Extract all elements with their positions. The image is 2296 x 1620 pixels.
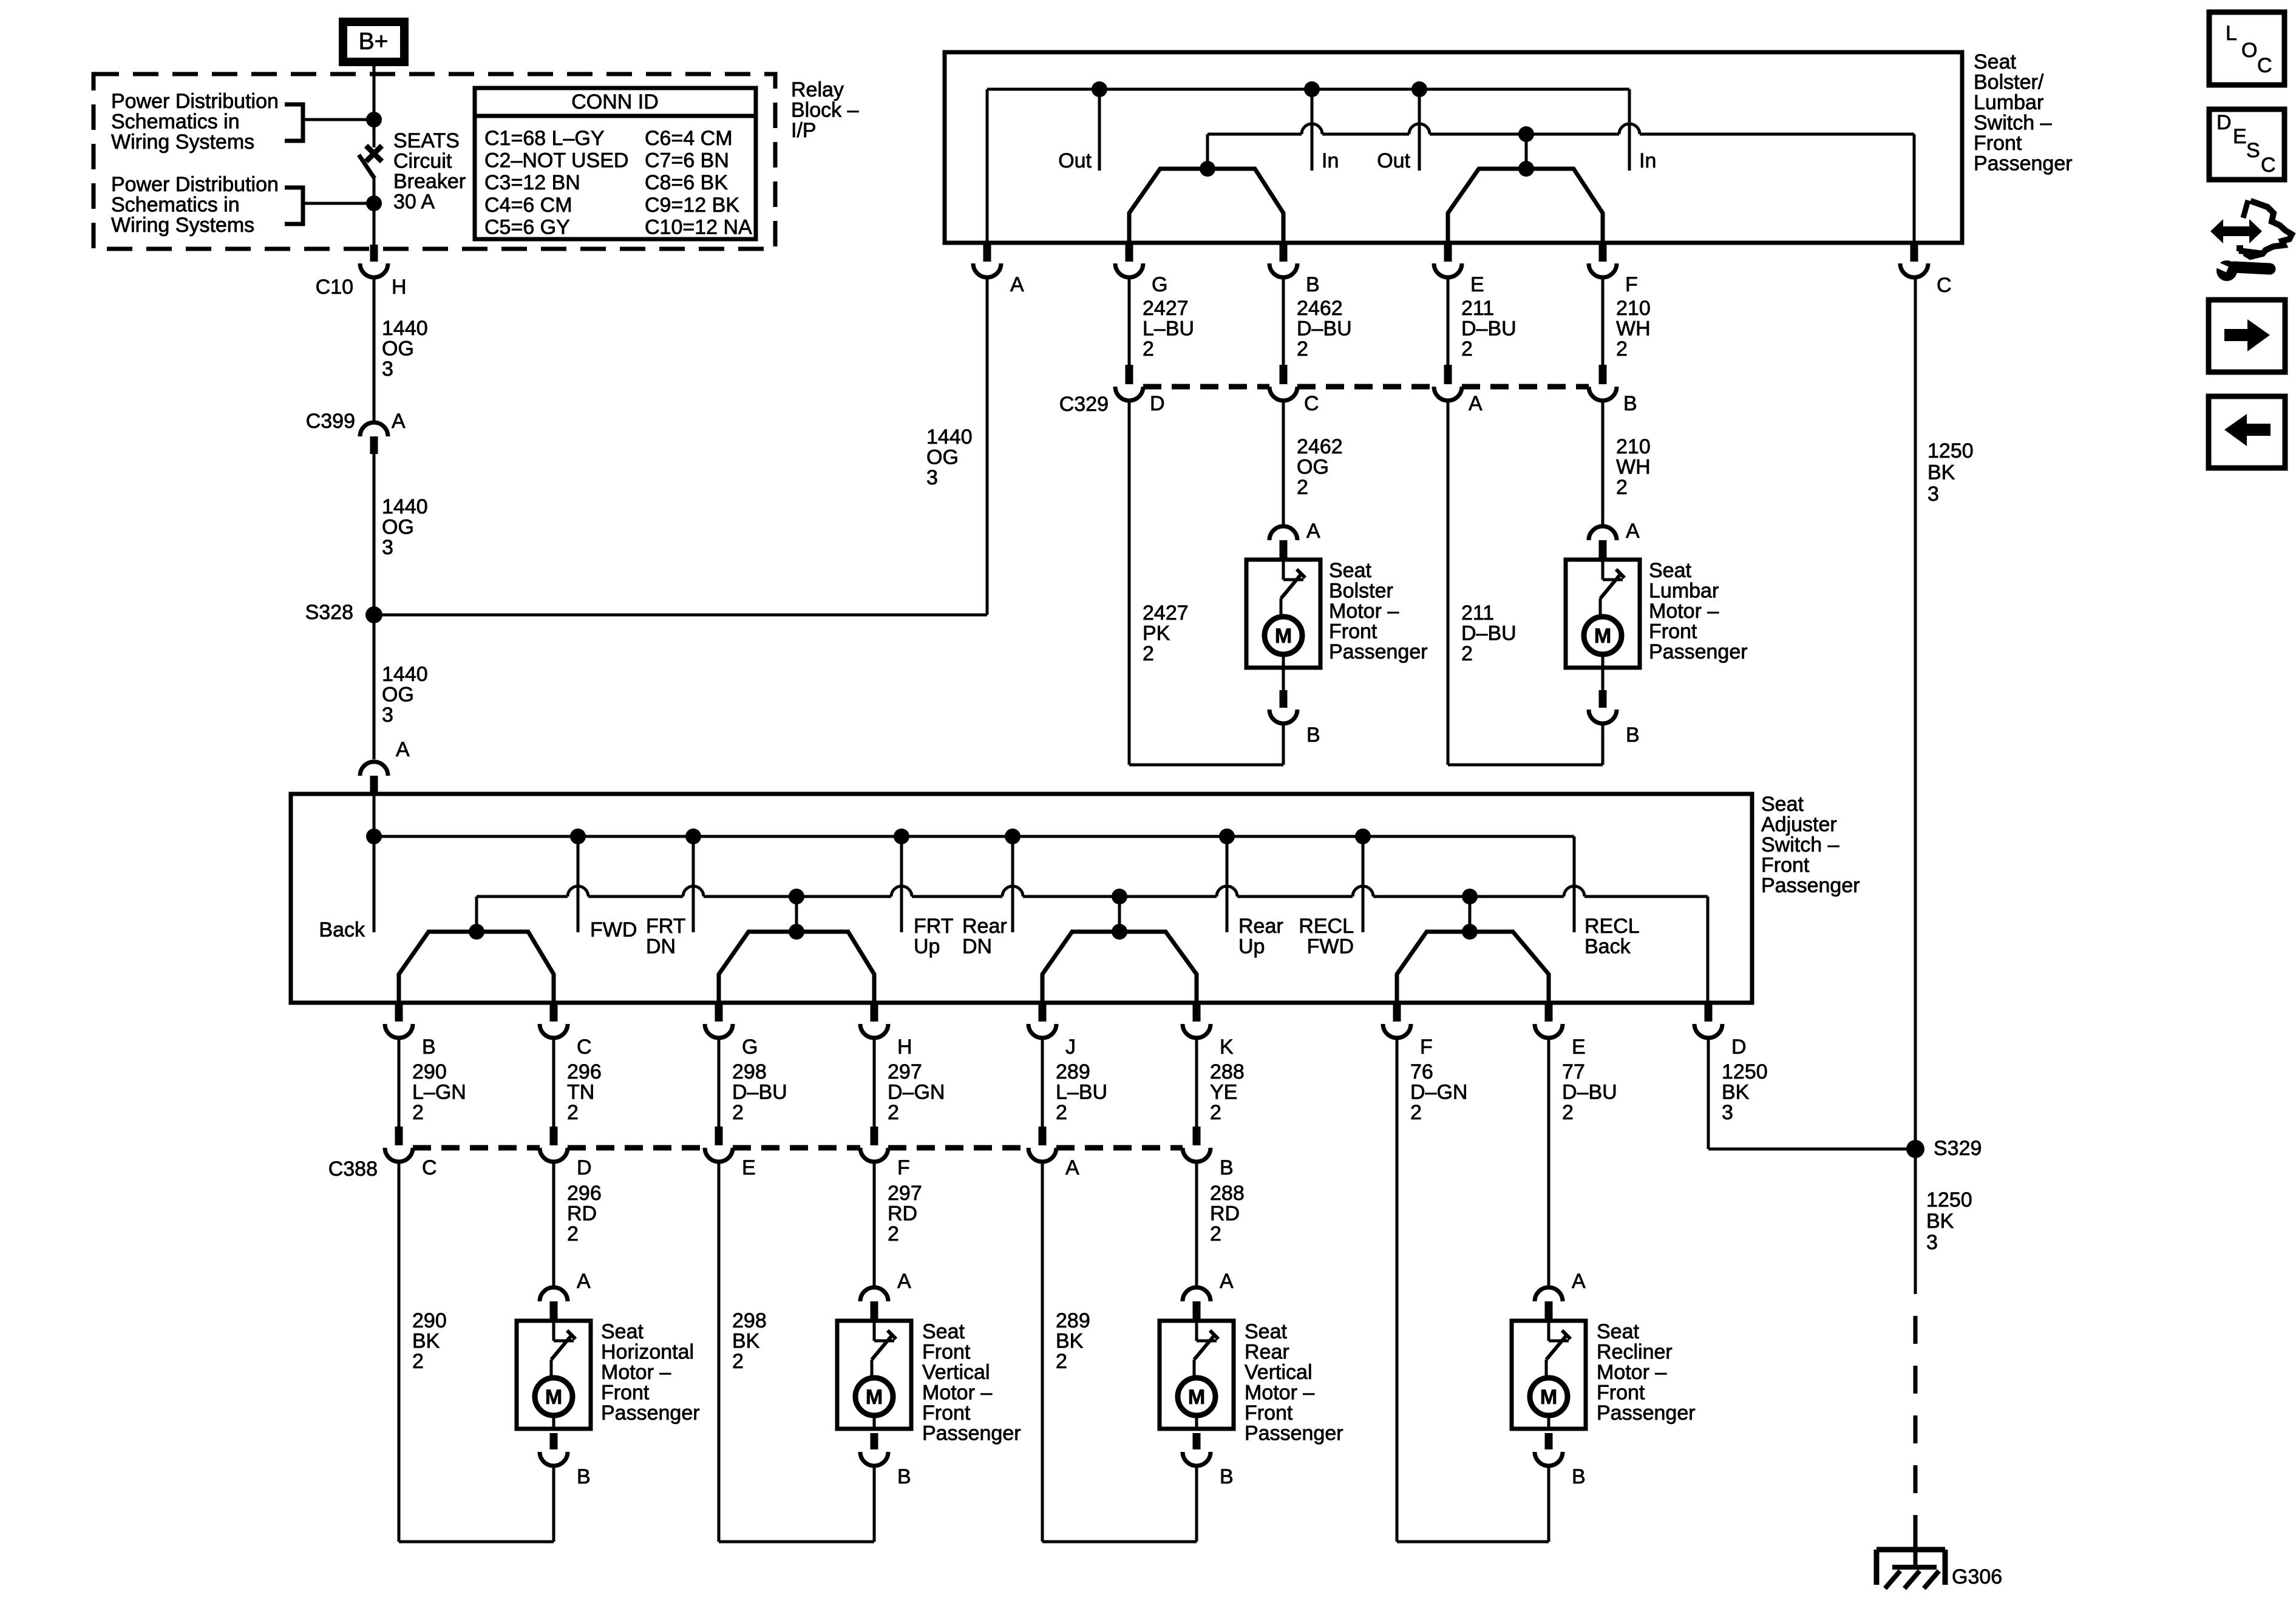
svg-text:FWD: FWD: [1307, 935, 1354, 958]
svg-text:Adjuster: Adjuster: [1761, 813, 1837, 836]
svg-text:Horizontal: Horizontal: [601, 1341, 694, 1364]
wire 1440 OG 3 segment 2: [373, 454, 376, 615]
junction dot line2 lumbar: [1518, 126, 1534, 142]
svg-text:L: L: [2226, 22, 2237, 45]
connector bolster pin F: [1589, 245, 1638, 296]
svg-text:296: 296: [567, 1060, 602, 1083]
svg-text:TN: TN: [567, 1081, 594, 1104]
svg-text:D: D: [1731, 1035, 1747, 1059]
nav icon forward arrow box: [2209, 300, 2285, 372]
wire label circuit 289 under pin J: [1056, 1060, 1107, 1124]
svg-text:296: 296: [567, 1182, 602, 1205]
lumbar wiper trapezoid: [1448, 161, 1603, 243]
svg-text:Front: Front: [922, 1401, 971, 1425]
svg-text:L–BU: L–BU: [1143, 317, 1194, 341]
svg-text:1250: 1250: [1926, 1188, 1972, 1212]
junction dot out2: [1411, 81, 1427, 97]
wire pin B down to C388: [398, 1038, 401, 1127]
svg-text:Front: Front: [601, 1381, 650, 1405]
svg-text:G: G: [742, 1035, 758, 1059]
wire bracket2 to bus: [303, 202, 374, 205]
wire 290 BK 2: [399, 1160, 447, 1542]
svg-text:L–BU: L–BU: [1056, 1081, 1107, 1104]
svg-text:C4=6 CM: C4=6 CM: [484, 194, 572, 217]
svg-text:S328: S328: [305, 601, 353, 624]
out1 contact stub: [1058, 89, 1099, 172]
relay block label Relay Block - I/P: [791, 78, 859, 142]
svg-text:BK: BK: [1926, 1210, 1954, 1233]
wire 298 BK 2: [719, 1160, 767, 1542]
svg-text:Motor –: Motor –: [1329, 600, 1399, 623]
svg-text:B: B: [1220, 1156, 1234, 1179]
svg-text:L–GN: L–GN: [412, 1081, 466, 1104]
svg-text:C: C: [2261, 154, 2276, 177]
svg-text:1440: 1440: [926, 425, 973, 449]
svg-text:2: 2: [1297, 476, 1308, 499]
svg-text:Out: Out: [1377, 149, 1410, 172]
svg-text:Up: Up: [914, 935, 940, 958]
connector C329 dashed line: [1059, 387, 1589, 416]
svg-text:1250: 1250: [1927, 439, 1974, 463]
svg-text:DN: DN: [962, 935, 992, 958]
svg-text:OG: OG: [382, 683, 414, 707]
svg-text:M: M: [866, 1386, 883, 1409]
svg-text:Motor –: Motor –: [1245, 1381, 1314, 1405]
svg-text:C: C: [1304, 392, 1319, 415]
link line2 to wiper t4: [1469, 896, 1472, 932]
svg-text:Bolster: Bolster: [1329, 580, 1393, 603]
connector bolster pin E: [1434, 245, 1484, 296]
svg-text:Switch –: Switch –: [1761, 833, 1839, 856]
wire label circuit 298 under pin G: [732, 1060, 787, 1124]
wire label circuit 288 under pin K: [1210, 1060, 1245, 1124]
svg-text:C2–NOT USED: C2–NOT USED: [484, 149, 628, 172]
svg-text:C1=68 L–GY: C1=68 L–GY: [484, 127, 605, 150]
svg-text:C388: C388: [328, 1157, 378, 1181]
svg-text:Lumbar: Lumbar: [1974, 91, 2043, 114]
wire label circuit 77 under pin E: [1562, 1060, 1617, 1124]
svg-text:S329: S329: [1934, 1137, 1982, 1160]
svg-text:B: B: [1626, 724, 1640, 747]
svg-text:C: C: [577, 1035, 592, 1059]
seat adjuster switch box: [291, 794, 1752, 1003]
nav icon vehicle with arrows and wrench: [2210, 200, 2292, 281]
svg-text:Rear: Rear: [1245, 1341, 1289, 1364]
svg-text:1440: 1440: [382, 317, 428, 340]
bolster switch bus line1: [987, 88, 1629, 91]
svg-text:E: E: [1470, 273, 1484, 296]
svg-text:288: 288: [1210, 1060, 1245, 1083]
svg-text:B: B: [577, 1465, 591, 1488]
connector C399 pin A: [306, 410, 406, 454]
svg-text:BK: BK: [732, 1330, 760, 1353]
svg-text:Passenger: Passenger: [1761, 874, 1860, 897]
svg-text:B: B: [1572, 1465, 1586, 1488]
svg-text:M: M: [1275, 625, 1292, 648]
svg-text:Passenger: Passenger: [1649, 640, 1748, 663]
svg-text:RD: RD: [888, 1202, 917, 1225]
svg-text:C3=12 BN: C3=12 BN: [484, 171, 580, 194]
svg-text:2: 2: [732, 1350, 744, 1373]
label SEATS Circuit Breaker 30 A: [393, 129, 466, 214]
CONN ID table: [475, 88, 756, 239]
junction dot breaker bottom: [366, 195, 382, 211]
connector adjuster pin G: [705, 1005, 758, 1059]
motor seat front vertical (front passenger): [837, 1270, 1021, 1542]
svg-text:2: 2: [1210, 1222, 1221, 1246]
connector C329 pin C: [1269, 365, 1319, 415]
label seat bolster/lumbar switch: [1974, 50, 2073, 175]
svg-text:2: 2: [1056, 1101, 1067, 1124]
svg-text:211: 211: [1461, 602, 1494, 625]
svg-text:Motor –: Motor –: [601, 1361, 671, 1384]
connector adjuster pin K: [1183, 1005, 1234, 1059]
junction dot frt up: [894, 829, 909, 844]
svg-text:210: 210: [1616, 297, 1651, 320]
wire 296 RD 2: [554, 1160, 602, 1286]
svg-text:Schematics in: Schematics in: [111, 110, 240, 134]
svg-text:A: A: [1065, 1156, 1079, 1179]
label seat adjuster switch: [1761, 793, 1860, 897]
svg-text:Passenger: Passenger: [1245, 1422, 1343, 1445]
nav icon LOC box: [2209, 12, 2284, 85]
svg-text:RD: RD: [567, 1202, 597, 1225]
svg-text:Seat: Seat: [1329, 559, 1371, 582]
svg-text:A: A: [1469, 392, 1483, 415]
motor seat bolster (front passenger): [1246, 520, 1428, 765]
connector adjuster pin F: [1383, 1005, 1433, 1059]
svg-text:Passenger: Passenger: [1974, 152, 2073, 175]
connector bolster pin A: [973, 245, 1024, 296]
svg-text:Breaker: Breaker: [393, 170, 466, 193]
motor seat horizontal (front passenger): [517, 1270, 700, 1542]
svg-text:3: 3: [382, 703, 393, 727]
wire 1440 OG 3 segment 1: [373, 277, 376, 421]
link line2 to lumbar wiper: [1525, 134, 1528, 169]
wire 1250 BK 3 from pin C: [1915, 277, 1974, 1149]
splice S329: [1906, 1137, 1982, 1160]
svg-text:M: M: [545, 1386, 562, 1409]
label wire 1440 OG 3 (branch): [926, 425, 973, 489]
wire 77 chain down: [1547, 1038, 1550, 1286]
svg-text:D–GN: D–GN: [888, 1081, 945, 1104]
svg-text:A: A: [392, 410, 406, 433]
wire 2462 OG 2: [1283, 401, 1343, 524]
svg-text:A: A: [1572, 1270, 1586, 1293]
svg-text:OG: OG: [382, 337, 414, 361]
svg-text:B: B: [1306, 273, 1320, 296]
svg-text:In: In: [1639, 149, 1656, 172]
svg-text:Out: Out: [1058, 149, 1092, 172]
svg-text:Seat: Seat: [1245, 1320, 1287, 1343]
svg-text:F: F: [1625, 273, 1638, 296]
frt up contact stub: [902, 836, 953, 958]
svg-text:M: M: [1540, 1386, 1557, 1409]
svg-text:Seat: Seat: [1649, 559, 1691, 582]
connector adjuster pin H: [860, 1005, 912, 1059]
svg-text:D–BU: D–BU: [1297, 317, 1352, 341]
svg-text:C5=6 GY: C5=6 GY: [484, 215, 570, 239]
wire label circuit 76 under pin F: [1410, 1060, 1467, 1124]
recl back riser and stub: [1574, 836, 1640, 958]
junction dot back: [366, 829, 382, 844]
svg-text:Rear: Rear: [1238, 915, 1283, 938]
bolster switch feed riser A: [986, 89, 989, 243]
svg-text:Wiring Systems: Wiring Systems: [111, 130, 254, 154]
nav icon DESC box: [2209, 109, 2284, 180]
svg-text:C10=12 NA: C10=12 NA: [645, 215, 752, 239]
wire 2427 L-BU 2: [1129, 277, 1194, 365]
out2 contact stub: [1377, 89, 1419, 172]
nav icon back arrow box: [2209, 396, 2285, 468]
svg-text:2427: 2427: [1143, 602, 1189, 625]
svg-text:2: 2: [1143, 337, 1154, 361]
connector adjuster pin B: [385, 1005, 436, 1059]
back contact stub: [319, 836, 374, 941]
svg-text:F: F: [897, 1156, 910, 1179]
bolster wiper trapezoid: [1129, 161, 1283, 243]
fwd contact stub: [578, 836, 637, 941]
connector adjuster pin A: [360, 738, 410, 792]
svg-text:298: 298: [732, 1309, 767, 1332]
connector C388 pin F: [860, 1127, 910, 1179]
wire 2462 D-BU 2: [1283, 277, 1352, 365]
junction dot breaker top: [366, 112, 382, 127]
svg-text:Rear: Rear: [962, 915, 1007, 938]
connector adjuster pin J: [1028, 1005, 1076, 1059]
svg-text:77: 77: [1562, 1060, 1585, 1083]
connector C388 pin D: [540, 1127, 592, 1179]
svg-text:Power Distribution: Power Distribution: [111, 173, 279, 196]
svg-text:Vertical: Vertical: [1245, 1361, 1313, 1384]
motor seat recliner (front passenger): [1512, 1270, 1696, 1542]
svg-text:Seat: Seat: [1761, 793, 1804, 816]
note power distribution schematics 2: [111, 173, 279, 237]
connector C388 pin A: [1028, 1127, 1079, 1179]
svg-text:2462: 2462: [1297, 297, 1343, 320]
svg-text:289: 289: [1056, 1060, 1090, 1083]
svg-text:OG: OG: [1297, 456, 1329, 479]
in2 riser and stub: [1629, 89, 1656, 172]
wire horizontal motor return loop: [399, 1540, 554, 1544]
svg-text:D–GN: D–GN: [1410, 1081, 1467, 1104]
svg-text:H: H: [392, 276, 407, 299]
svg-text:BK: BK: [1927, 461, 1955, 484]
svg-text:Wiring Systems: Wiring Systems: [111, 214, 254, 237]
svg-text:2: 2: [1143, 642, 1154, 665]
junction dot line2 t2: [789, 889, 804, 904]
svg-text:A: A: [1306, 520, 1320, 543]
wire 1250 BK 3 from pin D: [1708, 1038, 1915, 1149]
svg-text:2462: 2462: [1297, 435, 1343, 458]
svg-text:2: 2: [1056, 1350, 1067, 1373]
junction dot out1: [1092, 81, 1107, 97]
svg-text:WH: WH: [1616, 456, 1651, 479]
svg-text:D–BU: D–BU: [1461, 622, 1517, 645]
svg-text:2: 2: [1616, 337, 1628, 361]
svg-text:In: In: [1322, 149, 1339, 172]
svg-text:Front: Front: [1245, 1401, 1293, 1425]
connector adjuster pin C: [540, 1005, 592, 1059]
wiper trapezoid front vertical: [719, 924, 874, 1003]
svg-text:Vertical: Vertical: [922, 1361, 990, 1384]
svg-text:H: H: [897, 1035, 912, 1059]
svg-text:C7=6 BN: C7=6 BN: [645, 149, 729, 172]
svg-text:3: 3: [382, 536, 393, 559]
svg-text:Front: Front: [1597, 1381, 1645, 1405]
wire 210 WH 2: [1603, 277, 1651, 365]
wire front vertical motor return loop: [719, 1540, 874, 1544]
svg-text:2: 2: [1461, 642, 1473, 665]
connector adjuster pin D: [1694, 1005, 1747, 1059]
frt dn contact stub: [646, 836, 693, 958]
svg-text:B: B: [1306, 724, 1320, 747]
svg-text:A: A: [897, 1270, 911, 1293]
svg-text:A: A: [577, 1270, 591, 1293]
wire S329 to ground solid: [1914, 1149, 1917, 1294]
svg-text:Front: Front: [1761, 854, 1810, 877]
svg-text:D–BU: D–BU: [1461, 317, 1517, 341]
junction dot frt dn: [685, 829, 701, 844]
svg-text:210: 210: [1616, 435, 1651, 458]
svg-text:A: A: [1220, 1270, 1234, 1293]
ground G306 symbol: [1877, 1530, 2002, 1588]
motor seat rear vertical (front passenger): [1160, 1270, 1343, 1542]
svg-text:2: 2: [1410, 1101, 1422, 1124]
svg-text:Seat: Seat: [922, 1320, 965, 1343]
svg-text:BK: BK: [1722, 1081, 1750, 1104]
svg-text:Passenger: Passenger: [1597, 1401, 1696, 1425]
svg-text:C9=12 BK: C9=12 BK: [645, 194, 739, 217]
adjuster bus line1: [374, 835, 1574, 838]
connector C10 pin H: [316, 245, 407, 299]
svg-text:YE: YE: [1210, 1081, 1237, 1104]
svg-text:M: M: [1188, 1386, 1205, 1409]
adjuster bus line2: [477, 886, 1708, 1003]
junction dot rear up: [1219, 829, 1235, 844]
connector C388 dashed line: [328, 1148, 1183, 1181]
svg-text:2: 2: [1297, 337, 1308, 361]
junction dot line2 t4: [1462, 889, 1478, 904]
wire 297 RD 2: [874, 1160, 922, 1286]
svg-text:290: 290: [412, 1309, 447, 1332]
connector bolster pin C: [1900, 245, 1952, 297]
svg-text:Recliner: Recliner: [1597, 1341, 1673, 1364]
svg-text:D: D: [577, 1156, 592, 1179]
connector C388 pin B: [1183, 1127, 1234, 1179]
svg-text:PK: PK: [1143, 622, 1170, 645]
svg-text:O: O: [2241, 39, 2257, 62]
svg-text:I/P: I/P: [791, 119, 817, 142]
svg-text:CONN ID: CONN ID: [571, 90, 659, 114]
svg-text:3: 3: [1722, 1101, 1733, 1124]
connector adjuster pin E: [1535, 1005, 1586, 1059]
svg-text:BK: BK: [1056, 1330, 1084, 1353]
label wire 1440 OG 3 (3): [382, 663, 428, 727]
link line2 to wiper t3: [1118, 896, 1121, 932]
svg-text:Seat: Seat: [601, 1320, 644, 1343]
svg-text:2: 2: [888, 1101, 899, 1124]
svg-text:2: 2: [1210, 1101, 1221, 1124]
wire rear vertical motor return loop: [1042, 1540, 1197, 1544]
svg-text:BK: BK: [412, 1330, 440, 1353]
svg-text:2427: 2427: [1143, 297, 1189, 320]
svg-text:2: 2: [1461, 337, 1473, 361]
svg-text:Circuit: Circuit: [393, 150, 452, 173]
svg-text:A: A: [1010, 273, 1024, 296]
junction dot line2 t3: [1112, 889, 1127, 904]
wiper trapezoid rear vertical: [1042, 924, 1197, 1003]
bracket note 1: [285, 104, 303, 141]
svg-text:Motor –: Motor –: [1649, 600, 1719, 623]
svg-text:Passenger: Passenger: [922, 1422, 1021, 1445]
wire 76 chain down: [1396, 1038, 1399, 1542]
wiper trapezoid recliner: [1397, 924, 1549, 1003]
junction dot rear dn: [1005, 829, 1021, 844]
svg-text:Power Distribution: Power Distribution: [111, 90, 279, 113]
svg-text:B+: B+: [359, 29, 389, 55]
wire bolster motor return loop: [1129, 764, 1283, 767]
connector C388 pin C: [385, 1127, 437, 1179]
svg-text:288: 288: [1210, 1182, 1245, 1205]
svg-text:Lumbar: Lumbar: [1649, 580, 1719, 603]
svg-text:2: 2: [412, 1350, 424, 1373]
label wire 1250 BK 3 below S329: [1926, 1188, 1972, 1254]
svg-text:B: B: [422, 1035, 436, 1059]
svg-text:FWD: FWD: [590, 918, 637, 941]
wire 210 WH 2 (lower): [1603, 401, 1651, 524]
rear dn contact stub: [962, 836, 1013, 958]
svg-text:B: B: [897, 1465, 911, 1488]
svg-text:1250: 1250: [1722, 1060, 1768, 1083]
wire 211 D-BU 2 (lower): [1448, 401, 1517, 765]
svg-text:F: F: [1420, 1035, 1433, 1059]
wire pin J down to C388: [1041, 1038, 1044, 1127]
svg-text:297: 297: [888, 1060, 922, 1083]
svg-text:J: J: [1065, 1035, 1076, 1059]
svg-text:Front: Front: [1974, 132, 2022, 155]
in1 contact stub: [1312, 89, 1339, 172]
svg-text:D: D: [2216, 111, 2232, 134]
svg-text:297: 297: [888, 1182, 922, 1205]
power feed B+ symbol: [339, 18, 409, 66]
svg-text:WH: WH: [1616, 317, 1651, 341]
bracket note 2: [285, 188, 303, 224]
svg-text:E: E: [742, 1156, 756, 1179]
svg-text:290: 290: [412, 1060, 447, 1083]
svg-text:E: E: [2233, 125, 2247, 148]
relay block dashed outline: [93, 74, 775, 249]
junction dot in1: [1304, 81, 1320, 97]
svg-text:OG: OG: [926, 446, 959, 469]
wire bracket1 to bus: [303, 118, 374, 121]
svg-text:3: 3: [1926, 1231, 1938, 1254]
svg-text:Passenger: Passenger: [601, 1401, 700, 1425]
svg-text:M: M: [1594, 625, 1611, 648]
connector bolster pin B: [1269, 245, 1320, 296]
svg-text:A: A: [396, 738, 410, 761]
splice S328: [305, 601, 382, 624]
svg-text:2: 2: [732, 1101, 744, 1124]
svg-text:B: B: [1623, 392, 1637, 415]
wire B+ to relay block: [373, 66, 376, 120]
wiper trapezoid horizontal: [399, 924, 554, 1003]
wire S328 to switch feed branch: [374, 277, 987, 615]
svg-text:K: K: [1220, 1035, 1234, 1059]
connector bolster pin G: [1115, 245, 1167, 296]
svg-text:C: C: [422, 1156, 437, 1179]
wire S329 to ground dashed: [1914, 1294, 1918, 1530]
